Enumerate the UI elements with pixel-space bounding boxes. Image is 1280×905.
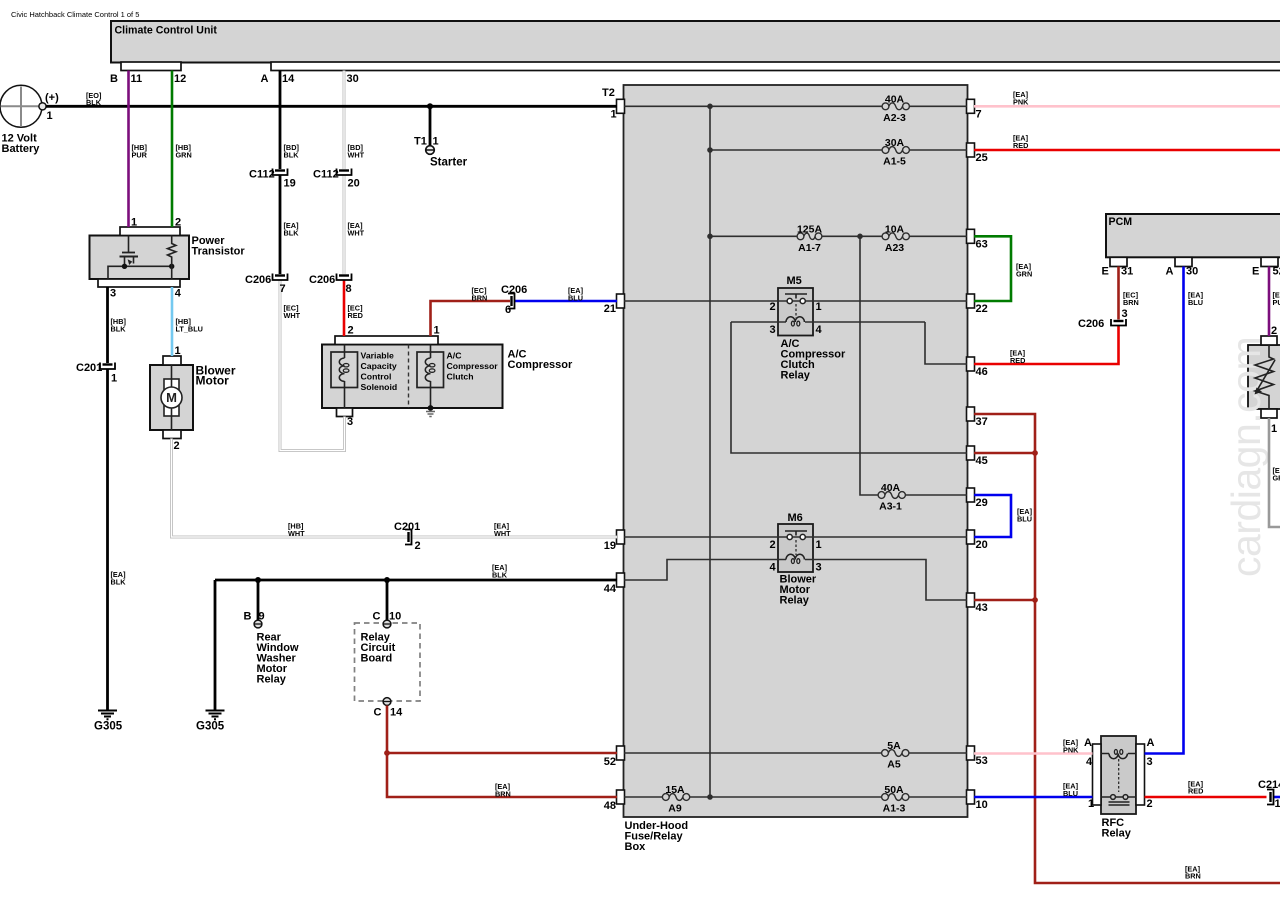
connector tab bottom of Power Transistor (pins 3,4)	[98, 279, 180, 287]
wire [EC] PUR PCM pin 52 to thermistor pin 2	[1268, 267, 1271, 337]
label Variable Capacity Control Solenoid	[361, 351, 398, 392]
wire label [EC] PUR PCM 52	[1273, 291, 1280, 308]
label A/C Compressor Clutch Relay	[781, 338, 847, 382]
resistor R1 in Power Transistor	[168, 236, 176, 280]
svg-text:A5: A5	[887, 759, 901, 771]
label C201 1	[76, 362, 117, 385]
junction starter tap	[427, 103, 433, 109]
svg-text:63: 63	[976, 239, 988, 251]
wire label [EC] GRY	[1273, 466, 1280, 483]
svg-text:A23: A23	[885, 242, 904, 254]
labels fuse box right pins	[976, 109, 988, 812]
svg-text:WHT: WHT	[288, 529, 305, 538]
svg-text:BLK: BLK	[284, 229, 300, 238]
junction on bus A x=710	[707, 104, 713, 110]
svg-text:C112: C112	[249, 169, 275, 181]
label T2 and pin 1	[602, 87, 617, 121]
svg-text:BRN: BRN	[495, 790, 511, 799]
svg-text:20: 20	[348, 178, 360, 190]
wire [BD] BLK pin 14 to C112-19	[279, 71, 282, 170]
fuse box pin tab 63	[967, 229, 975, 243]
wire label [EC] BRN PCM 31	[1123, 291, 1139, 308]
svg-text:19: 19	[604, 540, 616, 552]
svg-text:C201: C201	[76, 362, 102, 374]
svg-text:50A: 50A	[884, 784, 904, 796]
svg-text:A/C: A/C	[447, 351, 463, 361]
wire [EA] RED C206-3 to fuse box pin 46	[974, 326, 1119, 365]
svg-text:3: 3	[110, 288, 116, 300]
svg-text:52: 52	[1273, 266, 1280, 278]
box Climate Control Unit	[111, 21, 1280, 63]
solenoid coil box Variable Capacity Control Solenoid	[331, 352, 358, 388]
svg-text:C112: C112	[313, 169, 339, 181]
wire [BD] WHT pin 30 to C112-20	[343, 71, 346, 170]
label fuse 30A A1-5	[883, 137, 906, 168]
wire [EA] BLU C206-6 to fuse box pin 21	[515, 300, 618, 303]
svg-text:C214: C214	[1258, 779, 1280, 791]
svg-text:1: 1	[433, 136, 439, 148]
svg-text:Compressor: Compressor	[508, 359, 574, 371]
label C206 7	[245, 274, 286, 295]
wire [EA] BLU loop pin 29 to pin 20	[974, 495, 1011, 537]
svg-text:(+): (+)	[45, 92, 59, 104]
transistor Q1 MOSFET gate bar	[122, 252, 135, 254]
wire label [EC] WHT	[284, 304, 301, 321]
junction Power Transistor resistor	[169, 264, 174, 269]
wire internal vertical x=860 to 40A A3-1	[860, 236, 967, 495]
wire [EA] PNK pin 53 to RFC Relay pin 4	[974, 752, 1093, 755]
svg-text:A: A	[1084, 737, 1092, 749]
connector C206-8 symbol	[337, 274, 352, 281]
wire label [EA] BLU pin 10	[1063, 782, 1079, 799]
svg-text:30: 30	[1186, 266, 1198, 278]
svg-text:C: C	[374, 707, 382, 719]
wire internal M5 pin4 to pin 46	[925, 322, 967, 364]
svg-text:BLK: BLK	[284, 151, 300, 160]
svg-text:G305: G305	[94, 721, 123, 733]
motor M circle of Blower Motor	[161, 387, 182, 408]
relay RFC contact circles	[1111, 795, 1116, 800]
svg-text:14: 14	[390, 707, 403, 719]
svg-text:B: B	[244, 611, 252, 623]
wire internal pin48 to 15A 50A fuses to pin 10	[624, 796, 967, 798]
svg-text:1: 1	[47, 110, 53, 122]
fuse 50A A1-3	[882, 794, 909, 801]
box thermistor sensor	[1248, 345, 1280, 409]
wire [HB] PUR pin 11 to Power Transistor pin 1	[127, 71, 130, 228]
labels M5 pins 2 1 3 4	[770, 301, 823, 336]
fuse box pin tab 10	[967, 790, 975, 804]
fuse 15A A9	[662, 794, 689, 801]
svg-text:21: 21	[604, 303, 616, 315]
svg-text:11: 11	[131, 73, 143, 85]
connector C112-20 symbol	[337, 169, 352, 176]
svg-text:1: 1	[434, 325, 440, 337]
wire internal pin52 to 5A fuse to pin 53	[624, 752, 967, 754]
relay M5 armature dashed link	[795, 304, 797, 318]
svg-text:GRN: GRN	[176, 151, 192, 160]
connector tab PCM pin 30	[1175, 257, 1192, 266]
svg-text:GRY: GRY	[1273, 474, 1280, 483]
wire internal bus C to 125A and 10A fuses and pin 63	[710, 235, 967, 237]
svg-text:3: 3	[770, 324, 776, 336]
fuse box pin tab 45	[967, 446, 975, 460]
svg-text:Motor: Motor	[196, 374, 230, 388]
svg-text:PCM: PCM	[1109, 216, 1133, 228]
svg-text:Starter: Starter	[430, 157, 468, 169]
svg-text:C206: C206	[501, 284, 527, 296]
connector C201-2 symbol	[405, 530, 412, 545]
svg-text:RED: RED	[348, 311, 363, 320]
svg-text:10: 10	[389, 611, 401, 623]
wire label [HB] LT_BLU	[176, 317, 203, 334]
wire label [EA] RED to C214	[1188, 780, 1204, 796]
fuse box pin tab 46	[967, 357, 975, 371]
wire label [EA] RED pin 46	[1010, 349, 1026, 366]
svg-text:BLK: BLK	[111, 325, 127, 334]
wire [HB] BLK Power Transistor pin 3 to C201-1	[106, 287, 109, 363]
connector C112-19 symbol	[273, 169, 288, 176]
svg-text:A: A	[1166, 266, 1174, 278]
svg-text:8: 8	[346, 283, 352, 295]
svg-text:WHT: WHT	[348, 229, 365, 238]
svg-text:BLU: BLU	[1017, 515, 1032, 524]
labels PCM pins E 31 A 30 E 52	[1102, 266, 1280, 278]
svg-text:3: 3	[1147, 756, 1153, 768]
label C206 3	[1078, 308, 1128, 330]
wire [EA] RED fuse box pin 25 to right edge	[974, 149, 1280, 152]
connector tab top of thermistor (pin 2)	[1261, 336, 1277, 345]
labels Power Transistor pins 1 2 3 4	[110, 217, 182, 300]
svg-text:3: 3	[816, 562, 822, 574]
svg-text:1: 1	[1271, 423, 1277, 435]
label A/C Compressor Clutch	[447, 351, 499, 382]
junction BRN pin 45	[1032, 450, 1038, 456]
connector tab B of Climate Control Unit	[121, 62, 181, 71]
junction Power Transistor source	[122, 264, 127, 269]
box PCM	[1106, 214, 1280, 257]
clutch coil winding	[425, 358, 435, 381]
transistor Q1 MOSFET channel bar	[120, 256, 139, 258]
svg-text:M5: M5	[787, 275, 802, 287]
connector tab PCM pin 52	[1261, 257, 1278, 266]
junction clutch coil to case ground	[428, 405, 434, 411]
svg-text:52: 52	[604, 756, 616, 768]
connector tab PCM pin 31	[1110, 257, 1127, 266]
connector tab left of RFC Relay (pins 4,1)	[1093, 744, 1102, 805]
wire [EC] GRY thermistor pin 1 to right edge	[1269, 418, 1280, 527]
svg-text:Climate Control Unit: Climate Control Unit	[115, 25, 218, 37]
connector tab bottom of thermistor (pin 1)	[1261, 409, 1277, 418]
fuse 10A A23	[882, 233, 909, 240]
box Power Transistor	[90, 236, 190, 280]
label C206 8	[309, 274, 352, 295]
svg-text:BLU: BLU	[1063, 789, 1078, 798]
label Rear Window Washer Motor Relay	[257, 632, 299, 686]
relay box M5	[778, 288, 813, 336]
svg-text:53: 53	[976, 755, 988, 767]
svg-text:A1-5: A1-5	[883, 156, 906, 168]
thermistor arrow	[1256, 360, 1275, 392]
svg-text:Box: Box	[625, 841, 647, 853]
wire label [EA] BLU PCM 30	[1188, 291, 1204, 308]
relay M6 contact bar	[785, 531, 807, 536]
divider dashed line of A/C Compressor	[408, 345, 410, 409]
svg-text:C: C	[373, 611, 381, 623]
svg-text:1: 1	[1088, 798, 1094, 810]
fuse 125A A1-7	[797, 233, 822, 240]
svg-text:22: 22	[976, 303, 988, 315]
fuse box pin tab 20	[967, 530, 975, 544]
wire label [EA] GRN loop	[1016, 262, 1032, 279]
terminal C10 circle of Relay Circuit Board	[383, 620, 391, 628]
svg-text:C206: C206	[1078, 318, 1104, 330]
wire internal M5 coil line pin3 pin4	[731, 321, 925, 323]
label C112 20	[313, 169, 360, 190]
fuse box pin tab 53	[967, 746, 975, 760]
svg-text:Clutch: Clutch	[447, 372, 474, 382]
svg-text:2: 2	[770, 301, 776, 313]
svg-text:RED: RED	[1013, 141, 1028, 150]
svg-text:Relay: Relay	[1102, 828, 1132, 840]
battery B1 crosshair	[1, 87, 41, 127]
label fuse 125A A1-7	[797, 224, 823, 255]
svg-text:Capacity: Capacity	[361, 361, 397, 371]
wire internal pin21 to M5 contact to pin 22	[624, 300, 967, 302]
svg-text:2: 2	[1147, 798, 1153, 810]
fuse box pin tab 44	[617, 573, 625, 587]
wire internal M6 pin3 to pin 43	[805, 560, 967, 601]
wire [EA] BLU C214-1 to right edge	[1274, 796, 1280, 799]
relay M6 armature dashed link	[795, 540, 797, 555]
svg-text:4: 4	[816, 324, 823, 336]
svg-text:A: A	[261, 73, 269, 85]
fuse box pin tab 29	[967, 488, 975, 502]
connector tab top of Blower Motor (pin 1)	[163, 356, 181, 365]
connector tab top of Power Transistor (pins 1,2)	[120, 227, 180, 236]
svg-text:Transistor: Transistor	[192, 245, 246, 257]
svg-text:C201: C201	[394, 521, 420, 533]
wire [EA] WHT C112-20 to C206-8	[343, 175, 346, 274]
relay M5 contact bar	[785, 294, 807, 299]
svg-text:A3-1: A3-1	[879, 501, 902, 513]
relay M6 contact circles	[787, 534, 792, 539]
svg-text:cardiagn.com: cardiagn.com	[1223, 337, 1269, 577]
svg-text:M: M	[166, 390, 177, 405]
svg-text:1: 1	[1275, 798, 1280, 810]
wire blower motor leads	[171, 365, 173, 430]
labels fuse box left pins 21 19 44 52 48	[604, 303, 617, 812]
wire solenoid lead pin 2 to pin 3	[344, 345, 346, 409]
wire label [EA] WHT to pin 19	[494, 522, 511, 539]
svg-text:19: 19	[284, 178, 296, 190]
svg-text:9: 9	[259, 611, 265, 623]
junction on bus C x=710	[707, 234, 713, 240]
svg-text:BLK: BLK	[111, 578, 127, 587]
svg-text:Compressor: Compressor	[447, 361, 499, 371]
svg-text:4: 4	[175, 288, 182, 300]
svg-text:31: 31	[1121, 266, 1133, 278]
relay box RFC	[1101, 736, 1136, 814]
wire label [EA] BLU loop 29-20	[1017, 507, 1033, 524]
wire internal pin44 to M6 coil pin4	[624, 560, 786, 581]
svg-text:29: 29	[976, 497, 988, 509]
svg-text:RED: RED	[1010, 356, 1025, 365]
svg-text:1: 1	[816, 301, 822, 313]
wire [EC] BRN PCM pin 31 to C206-3	[1117, 267, 1120, 320]
svg-text:Civic Hatchback Climate Contro: Civic Hatchback Climate Control 1 of 5	[11, 10, 139, 19]
fuse box pin tab 43	[967, 593, 975, 607]
label Blower Motor Relay	[780, 574, 817, 607]
svg-text:10A: 10A	[885, 224, 905, 236]
svg-text:B: B	[110, 73, 118, 85]
wire label [EA] BRN to pin 48	[495, 782, 511, 799]
svg-text:LT_BLU: LT_BLU	[176, 325, 203, 334]
battery B1 terminal circle pin 1	[39, 103, 46, 110]
label C214 1	[1258, 779, 1280, 810]
label fuse 5A A5	[887, 740, 901, 771]
svg-text:BLK: BLK	[492, 571, 508, 580]
svg-text:BLU: BLU	[1188, 298, 1203, 307]
fuse box pin tab 19	[617, 530, 625, 544]
svg-text:1: 1	[816, 539, 822, 551]
label fuse 40A A2-3	[883, 94, 906, 125]
terminal C14 circle of Relay Circuit Board	[383, 698, 391, 706]
svg-text:14: 14	[282, 73, 295, 85]
box A/C Compressor	[322, 345, 503, 409]
wire label [BD] BLK	[284, 143, 300, 160]
wire [EA] BLK relay branch line to fuse box pin 44	[215, 579, 617, 582]
wire label [EA] WHT pin30 run	[348, 221, 365, 238]
label fuse 40A A3-1	[879, 482, 902, 513]
wire [EC] WHT C206-7 to solenoid pin 3	[280, 280, 345, 451]
svg-text:PUR: PUR	[1273, 298, 1280, 307]
svg-text:A1-7: A1-7	[798, 242, 821, 254]
svg-text:4: 4	[1086, 756, 1093, 768]
fuse 30A A1-5	[882, 147, 909, 154]
relay RFC armature dashed link	[1118, 759, 1120, 792]
svg-text:20: 20	[976, 539, 988, 551]
label fuse 50A A1-3	[883, 784, 906, 815]
svg-text:7: 7	[976, 109, 982, 121]
wire clutch coil lead pin 1 to ground	[430, 345, 432, 409]
connector C206-3 symbol	[1111, 319, 1126, 326]
thermistor resistor zigzag	[1255, 345, 1274, 409]
svg-text:Relay: Relay	[257, 674, 287, 686]
wire to G305 right	[214, 580, 217, 710]
svg-text:Control: Control	[361, 372, 392, 382]
connector C206-6 symbol	[508, 294, 515, 309]
blower motor inner frame	[164, 379, 179, 416]
wire [HB] WHT Blower Motor pin 2 to C201-2	[172, 439, 408, 538]
junction BRN pin 43	[1032, 597, 1038, 603]
svg-text:GRN: GRN	[1016, 270, 1032, 279]
wire internal M5 pin3 to pin 45	[731, 322, 967, 453]
labels terminal C 10	[373, 611, 402, 623]
svg-text:2: 2	[348, 325, 354, 337]
transistor Q1 MOSFET gate lead	[128, 236, 130, 253]
connector tab A of Climate Control Unit	[271, 62, 1280, 71]
wire label [EA] RED pin 25	[1013, 134, 1029, 151]
svg-text:1: 1	[611, 109, 617, 121]
box Under-Hood Fuse/Relay Box	[624, 85, 968, 817]
svg-text:40A: 40A	[885, 94, 905, 106]
labels CCU connector pins B 11 12 A 14 30	[110, 73, 359, 85]
wire label [EO] BLK	[86, 91, 102, 107]
label Power Transistor	[192, 235, 246, 257]
label A/C Compressor	[508, 349, 574, 372]
connector C214-1 symbol	[1267, 790, 1274, 805]
wire [EA] BLK C112-19 to C206-7	[279, 175, 282, 274]
wire label [EA] BLK pin14 run	[284, 221, 300, 238]
label fuse 15A A9	[665, 784, 685, 815]
terminal T1 circle of Starter	[426, 146, 435, 155]
wire branch to terminal C10	[386, 580, 389, 620]
box Blower Motor	[150, 365, 193, 430]
wire label [EA] BRN bottom right	[1185, 865, 1201, 881]
labels Blower Motor pins 1 2	[174, 345, 181, 452]
transistor Q1 MOSFET arrow	[128, 259, 133, 265]
ground G305 left	[98, 711, 117, 720]
fuse box pin tab 48	[617, 790, 625, 804]
svg-text:PNK: PNK	[1063, 746, 1079, 755]
svg-text:2: 2	[175, 217, 181, 229]
wire starter branch	[429, 106, 432, 146]
relay M6 coil	[786, 554, 804, 563]
svg-text:Board: Board	[361, 653, 393, 665]
wire internal bus B to 30A fuse and pin 25	[710, 149, 967, 151]
label T1 1	[414, 136, 439, 148]
connector tab bottom of Blower Motor (pin 2)	[163, 430, 181, 439]
svg-text:3: 3	[1122, 308, 1128, 320]
relay RFC contact bars	[1109, 802, 1130, 805]
fuse box pin tab 37	[967, 407, 975, 421]
svg-text:BRN: BRN	[472, 294, 488, 303]
relay circuit board dashed box	[355, 623, 421, 701]
svg-text:2: 2	[1271, 325, 1277, 337]
wire label [EA] BLU to pin 21	[568, 286, 584, 303]
svg-text:30A: 30A	[885, 137, 905, 149]
transistor Q1 MOSFET source/drain stubs	[125, 257, 134, 267]
ground internal of A/C Compressor Clutch	[426, 412, 435, 417]
wire [EO] BLK battery to T2	[46, 105, 617, 108]
svg-text:BRN: BRN	[1185, 872, 1201, 881]
terminal B9 circle of Rear Window Washer Motor Relay	[254, 620, 262, 628]
wire [EA] WHT C201-2 to fuse box pin 19	[412, 536, 618, 539]
svg-text:PNK: PNK	[1013, 98, 1029, 107]
wire Power Transistor source line	[108, 266, 172, 279]
wire label [HB] GRN	[176, 143, 192, 160]
labels RFC pins A 4 1 A 3 2	[1084, 737, 1155, 810]
svg-text:WHT: WHT	[348, 151, 365, 160]
wire label [EC] BRN	[472, 286, 488, 303]
wire internal vertical feed x=710	[709, 106, 711, 797]
ground G305 right	[206, 711, 225, 720]
fuse box pin tab 21	[617, 294, 625, 308]
svg-text:1: 1	[175, 345, 181, 357]
wire [EA] BRN C14 to fuse box pins 52 and 48	[387, 706, 617, 798]
connector C201-1 symbol	[100, 363, 115, 370]
fuse 40A A2-3	[882, 103, 909, 110]
svg-text:T1: T1	[414, 136, 427, 148]
fuse box pin tab 52	[617, 746, 625, 760]
fuse box pin tab T2-1	[617, 99, 625, 113]
svg-text:2: 2	[415, 540, 421, 552]
wire [EA] RED RFC Relay pin 2 to C214-1	[1145, 796, 1267, 799]
labels M6 pins 2 1 4 3	[770, 539, 822, 574]
relay M5 contact circles	[787, 298, 792, 303]
svg-text:RED: RED	[1188, 787, 1203, 796]
